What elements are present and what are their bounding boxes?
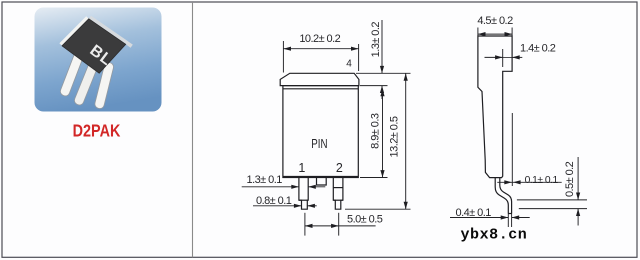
0.5 upper extension line [517,199,587,201]
svg-text:13.2± 0.5: 13.2± 0.5 [389,116,401,157]
svg-text:0.8± 0.1: 0.8± 0.1 [256,195,292,207]
1.4 dim line right [512,56,522,58]
1.3 pin dim line [242,186,299,188]
1.3tab dim line lower [381,86,383,99]
4.5 extension lines [477,28,479,36]
arrowheads 0.8 [294,204,302,208]
pin 3 bend line [333,187,343,189]
svg-text:1: 1 [298,161,305,175]
side lead outer line [495,178,508,214]
0.5 dim line upper [577,157,579,200]
4.5 dimension line [478,33,512,35]
pin 3 front [333,178,343,210]
tab bottom extension line [360,85,388,87]
pin 1 step line [299,199,308,201]
svg-text:2: 2 [336,161,343,175]
5.0 extension line pin3 [338,213,340,236]
icon pin 1 [59,50,85,97]
arrowhead 1.3tab down [380,66,384,73]
1.4 dim line left [485,56,503,58]
arrowhead 0.5 up [576,209,580,216]
0.5 dim line lower [577,209,579,226]
pin 3 step line [333,199,343,201]
arrowheads 8.9 [380,89,384,96]
0.5 lower extension line [519,208,587,210]
front body bottom thick line [283,176,358,178]
lead tip extension lines [507,214,509,228]
svg-text:1.3± 0.1: 1.3± 0.1 [247,174,283,186]
svg-text:0.5± 0.2: 0.5± 0.2 [564,161,576,197]
arrowhead 1.4 right [512,55,520,59]
1.4 dim line middle [503,56,512,58]
0.8 dim leader right [307,205,316,207]
arrowheads 0.1 [504,180,512,184]
1.3 pin dim leader right [308,186,325,188]
svg-text:0.1± 0.1: 0.1± 0.1 [525,175,559,186]
arrowheads 10.2 [283,47,291,51]
arrowhead 1.3tab up [380,86,384,93]
icon body highlight edge [59,16,88,46]
8.9 dim line [382,89,384,178]
side body outline [478,36,512,178]
0.8 dim line [253,205,302,207]
1.4 extension line [502,49,504,67]
0.4 dim line right [512,217,530,219]
svg-text:1.4± 0.2: 1.4± 0.2 [520,43,556,55]
side lead inner line [500,178,512,214]
svg-text:D2PAK: D2PAK [73,121,121,141]
10.2 dimension line [283,48,358,50]
0.4 dim line left [450,217,508,219]
5.0 extension line pin1 [304,213,306,236]
arrowhead 0.5 down [576,193,580,200]
arrowhead 0.4 right [512,215,520,219]
svg-text:10.2± 0.2: 10.2± 0.2 [299,33,340,45]
arrowheads 4.5 [478,32,486,36]
svg-text:4.5± 0.2: 4.5± 0.2 [477,15,513,27]
pin 1 front [299,178,308,210]
panel divider [192,2,194,257]
icon BL marking [86,42,115,70]
side lead tip [508,213,511,215]
svg-text:1.3± 0.2: 1.3± 0.2 [370,22,382,58]
arrowheads 5.0 [305,224,313,228]
D2PAK icon background [35,8,162,112]
13.2 dim line [405,73,407,209]
front body top inner line [283,88,358,90]
pin bottom extension line [345,208,411,210]
1.3tab dim line upper [381,20,383,73]
arrowheads 1.3 pin [291,185,299,189]
icon pin 2 [73,59,99,106]
arrowheads 13.2 [404,73,408,80]
icon pin 3 [94,62,114,110]
svg-text:0.4± 0.1: 0.4± 0.1 [456,207,492,219]
5.0 dimension line [305,225,376,227]
icon molded body [62,19,126,73]
arrowhead 0.4 left [501,215,509,219]
body bottom extension line [360,177,388,179]
svg-text:ybx8.cn: ybx8.cn [461,227,528,244]
icon metal tab [89,16,133,48]
mounting plane extension line [511,113,513,186]
tab top extension line [356,72,411,74]
svg-text:5.0± 0.5: 5.0± 0.5 [347,214,383,226]
front body [283,86,358,178]
10.2 dim extension lines [282,41,284,73]
svg-text:4: 4 [346,59,352,70]
0.1 dimension line [497,181,561,183]
svg-text:8.9± 0.3: 8.9± 0.3 [370,113,382,149]
front tab [280,73,359,85]
middle cut pin stub [317,178,327,186]
svg-text:PIN: PIN [311,138,327,151]
arrowhead 1.4 left [495,55,503,59]
